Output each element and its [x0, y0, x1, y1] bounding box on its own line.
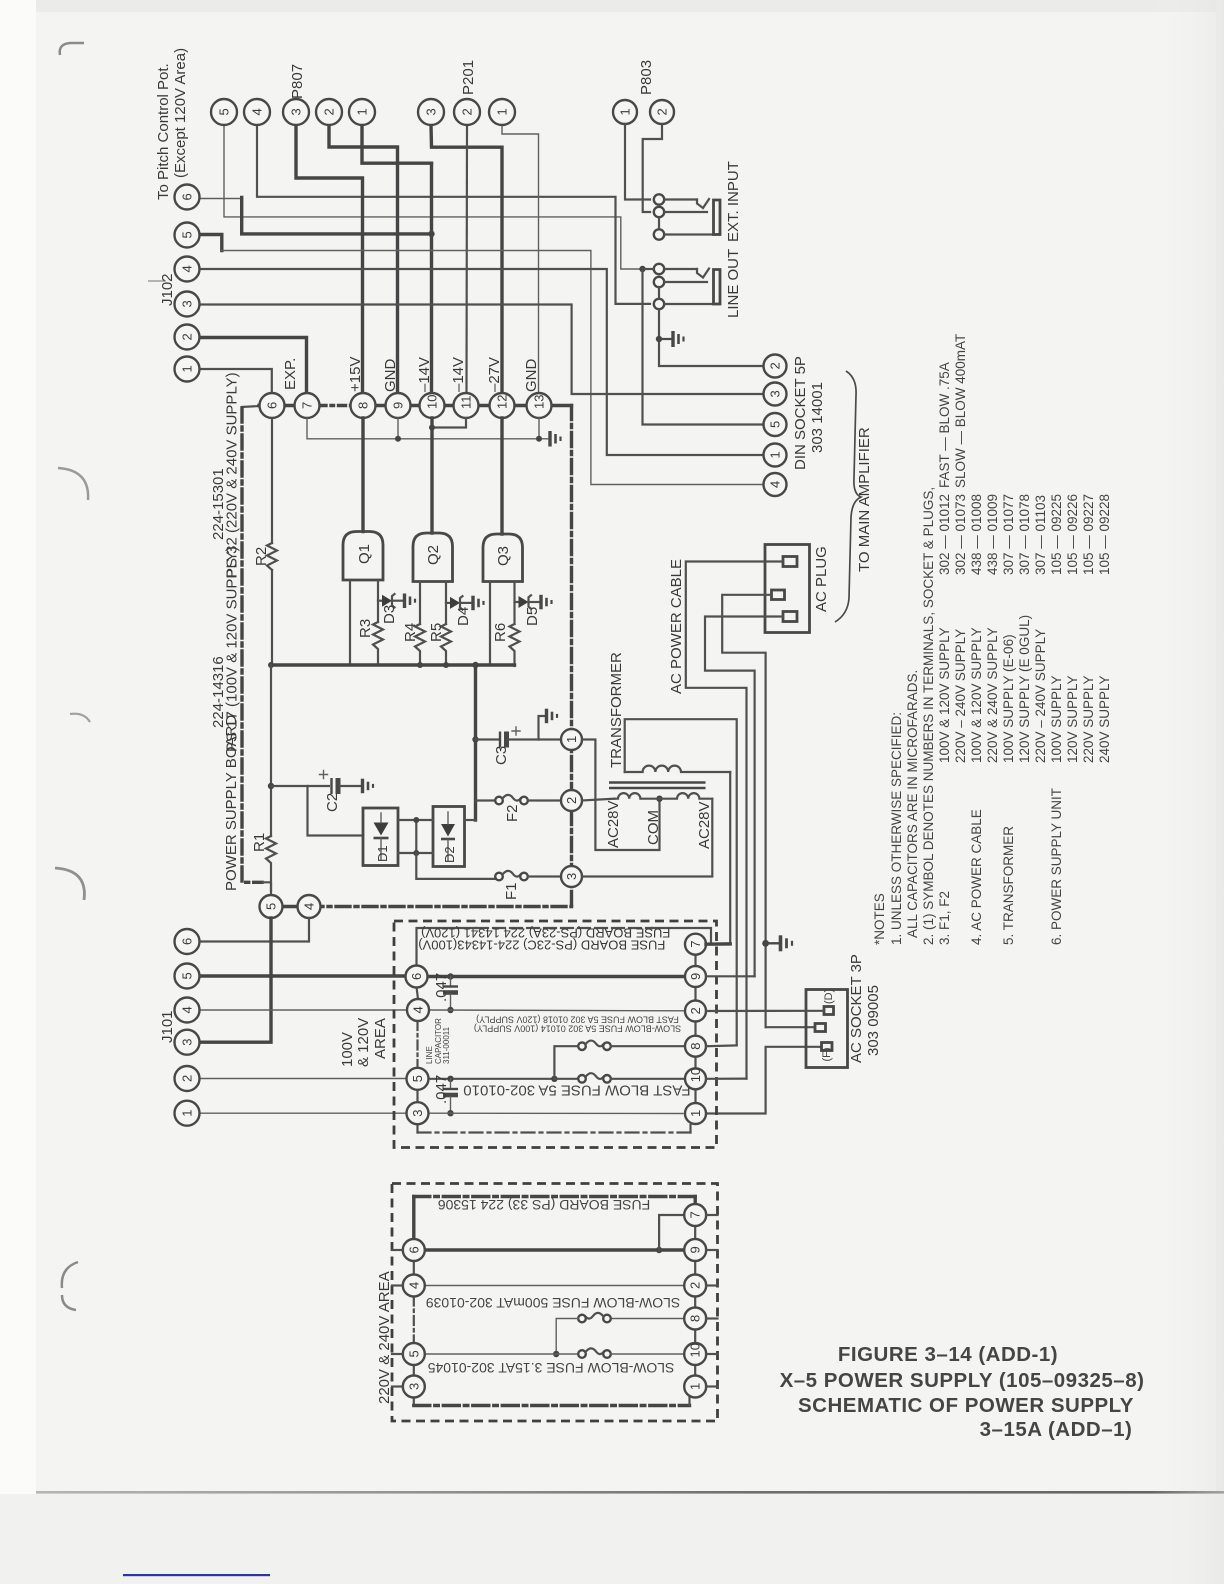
- AC plug middle prong: [772, 590, 785, 600]
- box pin 3: [407, 1102, 429, 1124]
- resistor R3: [373, 622, 383, 665]
- svg-text:5: 5: [264, 903, 279, 910]
- wire Q2 right lead: [445, 582, 447, 625]
- pin13 gnd stub: [538, 418, 540, 439]
- wire P201-1 to pin 13: [502, 125, 539, 393]
- svg-text:6: 6: [180, 193, 195, 200]
- svg-text:120V SUPPLY: 120V SUPPLY: [1065, 675, 1080, 763]
- svg-text:105 — 09228: 105 — 09228: [1097, 494, 1112, 575]
- svg-text:438 — 01008: 438 — 01008: [969, 494, 984, 575]
- svg-text:3: 3: [410, 1109, 425, 1116]
- wire D2 node to F1: [416, 853, 495, 879]
- connector DIN pin 1: [764, 444, 787, 467]
- connector J101 pin 1: [175, 1101, 200, 1126]
- wire Q1 right lead: [377, 580, 379, 622]
- wire bus to C3 node to D2: [474, 665, 477, 820]
- svg-text:4: 4: [411, 1006, 426, 1013]
- wire Q2 left lead: [419, 582, 421, 625]
- fuse F2: [495, 795, 528, 804]
- board right border: [570, 406, 573, 907]
- wire secondary right to pin3: [582, 799, 712, 877]
- connector J101 pin 3: [175, 1030, 200, 1055]
- box pin 10: [685, 1068, 706, 1089]
- wire 220 pin5 to fuse 3.15AT: [425, 1353, 578, 1355]
- junction dot 220 split: [553, 1351, 559, 1357]
- box 100/120V left pin chain: [417, 987, 419, 999]
- box pin 9: [685, 966, 706, 987]
- ground D4: [473, 596, 484, 611]
- svg-text:220V – 240V SUPPLY: 220V – 240V SUPPLY: [1033, 629, 1048, 763]
- bottom rail 220 box: [414, 1404, 690, 1407]
- connector J101 pin 2: [175, 1066, 200, 1091]
- svg-text:3: 3: [564, 873, 579, 880]
- 220 box pin stubs right: [706, 1214, 718, 1216]
- board edge row line: [259, 404, 319, 407]
- wire plug bottom prong to fuse pin9: [705, 617, 783, 977]
- box pin 5: [407, 1068, 429, 1090]
- svg-text:R1: R1: [251, 833, 268, 852]
- jack LINE OUT sleeve contact: [654, 288, 720, 309]
- wire C3 to pin 1: [509, 738, 562, 740]
- svg-text:1: 1: [564, 736, 579, 743]
- junction dot pin7 jog: [656, 1247, 662, 1253]
- svg-text:(D): (D): [823, 989, 835, 1004]
- power supply board left border: [242, 408, 262, 882]
- svg-text:.047: .047: [433, 973, 450, 1002]
- wire P807-5 to LINE OUT tip: [224, 125, 641, 269]
- svg-text:6. POWER SUPPLY UNIT: 6. POWER SUPPLY UNIT: [1049, 788, 1064, 945]
- junction dot 10-11 link: [429, 425, 435, 431]
- wire F2 tap to fuse: [476, 799, 496, 801]
- pin9 gnd stub: [397, 418, 399, 439]
- svg-text:3: 3: [768, 390, 783, 397]
- svg-text:Q2: Q2: [425, 545, 442, 565]
- wire primary right to fuse pin7: [729, 772, 731, 944]
- box pin 4: [407, 999, 429, 1021]
- wire P803-1 to EXT INPUT tip: [625, 124, 650, 200]
- svg-text:F2: F2: [504, 804, 521, 822]
- wire box pin6 up over to pin 7: [417, 928, 477, 965]
- svg-text:(F): (F): [821, 1047, 833, 1061]
- svg-text:5: 5: [410, 1075, 425, 1082]
- wire C2 node to cap: [271, 785, 329, 787]
- wire J102-6 to pin-10 column: [200, 198, 242, 200]
- svg-text:6: 6: [409, 973, 424, 980]
- resistor R5: [441, 624, 451, 666]
- jack LINE OUT body: [714, 270, 721, 305]
- transformer secondary winding right: [660, 793, 713, 799]
- junction dot cap lower bottom: [447, 1110, 453, 1116]
- svg-text:7: 7: [688, 1211, 703, 1218]
- svg-text:SLOW — BLOW 400mAT: SLOW — BLOW 400mAT: [953, 334, 968, 488]
- svg-text:+15V: +15V: [347, 357, 364, 392]
- fuse upper (to pin 8): [578, 1041, 611, 1050]
- svg-text:100V SUPPLY (E-06): 100V SUPPLY (E-06): [1001, 634, 1016, 763]
- power supply board border top tick: [242, 406, 260, 407]
- AC plug bottom prong: [783, 612, 797, 622]
- svg-text:5. TRANSFORMER: 5. TRANSFORMER: [1001, 826, 1016, 945]
- wire P201-2 to pin 11: [465, 125, 468, 393]
- AC socket middle prong: [815, 1024, 826, 1032]
- box pin 2: [685, 1001, 706, 1022]
- AC socket top prong D: [824, 1007, 834, 1015]
- svg-text:9: 9: [688, 973, 703, 980]
- jack EXT INPUT body: [714, 200, 721, 235]
- connector DIN pin 2: [764, 355, 787, 378]
- svg-text:2: 2: [688, 1282, 703, 1289]
- svg-text:AC PLUG: AC PLUG: [813, 546, 830, 612]
- wire J101-2 to box pin 5: [199, 1078, 407, 1080]
- transformer core: [609, 781, 706, 784]
- svg-text:10: 10: [425, 395, 440, 409]
- svg-text:2: 2: [180, 333, 195, 340]
- wire fuse to 220 pin10: [611, 1353, 684, 1355]
- box pin 7: [685, 934, 706, 955]
- connector J102 pin 3: [175, 292, 200, 317]
- connector J102 pin 6: [175, 185, 200, 210]
- wire P201-3 to pin 12: [431, 125, 502, 393]
- junction dot pin13 gnd: [536, 436, 542, 442]
- svg-text:P201: P201: [460, 60, 477, 95]
- gnd bus below row: pin7 stub: [307, 418, 549, 439]
- wire fuse to split dot: [556, 1319, 578, 1355]
- connector P201 pin 2: [454, 99, 480, 125]
- svg-text:302 — 01073: 302 — 01073: [953, 494, 968, 575]
- wire D2 to C3 vertical: [465, 819, 476, 821]
- wire 220 pin4 to pin2: [425, 1285, 684, 1287]
- resistor R1: [266, 836, 276, 891]
- wire P807-3 to pin 8: [296, 125, 363, 393]
- svg-text:J101: J101: [159, 1010, 176, 1043]
- capacitor .047 upper: [443, 977, 458, 1011]
- svg-text:3: 3: [180, 1038, 195, 1045]
- wire split up to upper fuse: [554, 1046, 578, 1079]
- svg-text:9: 9: [391, 402, 406, 409]
- svg-text:6: 6: [180, 938, 195, 945]
- box pin 6: [406, 966, 428, 988]
- wire plug middle prong to earth: [722, 595, 771, 1027]
- 220 box pin 8: [684, 1308, 706, 1330]
- svg-text:220V – 240V SUPPLY: 220V – 240V SUPPLY: [953, 629, 968, 763]
- svg-text:6: 6: [406, 1246, 421, 1253]
- svg-text:AC SOCKET 3P: AC SOCKET 3P: [848, 954, 865, 1063]
- svg-text:P803: P803: [638, 60, 655, 95]
- svg-text:*NOTES: *NOTES: [872, 893, 887, 945]
- wire split to lower fuse: [554, 1078, 578, 1080]
- punch mark left 2: [70, 714, 90, 722]
- svg-text:C2: C2: [324, 793, 341, 812]
- board row pin 8: [351, 393, 376, 418]
- svg-text:1: 1: [688, 1110, 703, 1117]
- wire C2 node branch to D1: [308, 786, 364, 836]
- connector P807 pin 1: [349, 99, 375, 125]
- svg-text:120V SUPPLY (E 0GUL): 120V SUPPLY (E 0GUL): [1017, 615, 1032, 763]
- svg-text:FIGURE 3–14 (ADD-1): FIGURE 3–14 (ADD-1): [838, 1343, 1058, 1366]
- wire C3 ground branch: [539, 716, 546, 740]
- svg-text:311-00011: 311-00011: [442, 1026, 451, 1064]
- 220 box right pin chain: [694, 1226, 696, 1239]
- wire 220 pin6 to pin9: [425, 1248, 684, 1251]
- wire plug top prong to fuse pin10: [686, 562, 783, 1079]
- board row pin 9: [386, 393, 411, 418]
- svg-text:2: 2: [768, 362, 783, 369]
- wire F2 to pin 2: [528, 799, 561, 801]
- blue pen line bottom: [123, 1574, 270, 1576]
- transistor Q2: [413, 533, 453, 582]
- wire pin10 out to AC: [706, 1077, 747, 1079]
- resistor R4: [415, 624, 425, 666]
- svg-text:3: 3: [424, 108, 439, 115]
- svg-text:GND: GND: [382, 359, 399, 393]
- svg-text:307 — 01077: 307 — 01077: [1001, 494, 1016, 575]
- wire Q3 right lead: [513, 582, 515, 625]
- svg-text:EXP.: EXP.: [282, 358, 299, 390]
- wire C2 to ground: [340, 785, 361, 787]
- svg-text:2. (1) SYMBOL DENOTES NUMBERS: 2. (1) SYMBOL DENOTES NUMBERS IN TERMINA…: [921, 487, 936, 945]
- svg-text:307 — 01078: 307 — 01078: [1017, 494, 1032, 575]
- transformer primary winding: [625, 766, 731, 772]
- wire left column bus to C2 node: [270, 665, 272, 836]
- box pin 8: [685, 1036, 706, 1057]
- 220 box pin 2: [684, 1275, 706, 1297]
- connector P807 pin 5: [211, 99, 237, 125]
- connector P201 pin 3: [418, 99, 444, 125]
- junction dot cap upper bottom: [447, 1007, 453, 1013]
- board row pin 11: [454, 393, 479, 418]
- wire pin1 to COM center tap: [582, 740, 660, 851]
- connector P807 pin 3: [283, 99, 309, 125]
- wire J101-6 to board pin 4: [199, 918, 309, 942]
- svg-text:GND: GND: [523, 359, 540, 393]
- svg-text:AC28V: AC28V: [696, 801, 713, 849]
- svg-text:302 — 01012: 302 — 01012: [937, 494, 952, 575]
- svg-text:5: 5: [768, 421, 783, 428]
- svg-text:DIN SOCKET 5P: DIN SOCKET 5P: [792, 356, 809, 470]
- ground D5: [541, 595, 552, 610]
- 220 box pin 4: [403, 1275, 425, 1297]
- connector J101 pin 5: [175, 964, 200, 989]
- svg-text:3: 3: [406, 1383, 421, 1390]
- svg-text:FUSE BOARD (PS-23C) 224-14343(: FUSE BOARD (PS-23C) 224-14343(100V): [418, 938, 665, 953]
- ground C2: [363, 779, 374, 794]
- svg-text:13: 13: [532, 395, 547, 409]
- svg-text:2: 2: [180, 1075, 195, 1082]
- ground earth: [766, 935, 792, 951]
- svg-text:8: 8: [688, 1042, 703, 1049]
- capacitor C3: [500, 727, 520, 748]
- junction dot pin9 gnd: [395, 436, 401, 442]
- resistor R2: [267, 543, 277, 570]
- jack LINE OUT tip contact: [645, 264, 709, 278]
- svg-text:220V & 240V SUPPLY: 220V & 240V SUPPLY: [985, 627, 1000, 763]
- connector P803 pin 1: [613, 100, 637, 124]
- wire P803-2 to EXT INPUT ring: [643, 124, 662, 212]
- svg-text:6: 6: [265, 402, 280, 409]
- fuse board 220/240V dashed box: [392, 1184, 718, 1422]
- svg-text:2: 2: [655, 108, 670, 115]
- punch mark left 1: [58, 468, 88, 500]
- svg-text:9: 9: [688, 1246, 703, 1253]
- wire D1-D2 links: [398, 819, 433, 821]
- svg-text:4: 4: [250, 108, 265, 115]
- wire pin-10 column: [430, 163, 433, 393]
- connector J102 pin 4: [175, 257, 200, 282]
- svg-text:ALL CAPACITORS ARE IN MICROFAR: ALL CAPACITORS ARE IN MICROFARADS.: [905, 670, 920, 938]
- svg-text:1: 1: [618, 108, 633, 115]
- svg-text:8: 8: [356, 402, 371, 409]
- svg-text:To Pitch Control Pot.: To Pitch Control Pot.: [155, 63, 172, 200]
- transistor Q1: [343, 532, 383, 581]
- svg-text:D3: D3: [381, 605, 398, 624]
- svg-text:R6: R6: [492, 623, 509, 642]
- wire pin12 to Q3: [500, 418, 503, 534]
- 220 box pin stubs left: [392, 1249, 403, 1251]
- svg-text:100V & 120V SUPPLY: 100V & 120V SUPPLY: [969, 627, 984, 763]
- svg-text:X–5 POWER SUPPLY (105–09325–8): X–5 POWER SUPPLY (105–09325–8): [780, 1369, 1145, 1392]
- svg-text:240V SUPPLY: 240V SUPPLY: [1097, 675, 1112, 763]
- punch mark left 3: [55, 868, 84, 900]
- board pin 4 bottom: [298, 895, 321, 918]
- svg-text:FAST BLOW FUSE 5A 302 01018 (1: FAST BLOW FUSE 5A 302 01018 (120V SUPPLY…: [476, 1015, 679, 1025]
- svg-text:1: 1: [768, 451, 783, 458]
- fuse lower (to pin 10): [578, 1073, 611, 1082]
- zener D4: [446, 596, 471, 609]
- svg-text:LINE OUT: LINE OUT: [725, 249, 742, 318]
- svg-text:100V & 120V SUPPLY: 100V & 120V SUPPLY: [937, 627, 952, 763]
- wire pin11 to pin10 link: [432, 418, 466, 428]
- board pin 1: [561, 729, 582, 750]
- svg-text:FAST BLOW FUSE 5A 302-01010: FAST BLOW FUSE 5A 302-01010: [463, 1082, 690, 1099]
- board pin 3: [561, 866, 582, 887]
- connector DIN pin 4: [764, 473, 787, 496]
- junction dot cap upper top: [447, 973, 453, 979]
- ground jack sleeve: [659, 331, 684, 347]
- svg-text:100V: 100V: [339, 1032, 356, 1067]
- wire P807-4 to LINE OUT sleeve: [257, 125, 650, 304]
- svg-text:4: 4: [180, 1006, 195, 1013]
- power supply board border corner to pin 5: [262, 882, 271, 895]
- wire box pin4 to pin2: [429, 1009, 685, 1012]
- svg-text:3. F1, F2: 3. F1, F2: [937, 891, 952, 945]
- svg-text:AC28V: AC28V: [605, 800, 622, 848]
- svg-text:12: 12: [495, 395, 510, 409]
- svg-text:4. AC POWER CABLE: 4. AC POWER CABLE: [969, 809, 984, 945]
- zener D5: [515, 595, 540, 608]
- svg-text:R2: R2: [253, 547, 270, 566]
- svg-text:–14V: –14V: [450, 357, 467, 392]
- junction dot LINE OUT tip node: [639, 266, 645, 272]
- svg-text:105 — 09225: 105 — 09225: [1049, 494, 1064, 575]
- wire pin3 bottom rail to pin1: [416, 1125, 418, 1133]
- 220 box pin 6: [403, 1239, 425, 1261]
- AC socket bottom prong F: [822, 1043, 833, 1051]
- ground D3: [405, 594, 416, 609]
- svg-text:303 09005: 303 09005: [865, 985, 882, 1056]
- svg-text:–14V: –14V: [416, 357, 433, 392]
- board bottom border: [282, 905, 572, 908]
- svg-text:D5: D5: [524, 607, 541, 626]
- svg-text:AREA: AREA: [372, 1018, 389, 1059]
- svg-text:8: 8: [688, 1315, 703, 1322]
- board row pin 10: [420, 393, 445, 418]
- svg-text:R4: R4: [402, 623, 419, 642]
- wire J102-3 to DIN pin 3: [200, 305, 764, 395]
- wire pin2 out to socket D: [706, 1010, 824, 1012]
- wire pin8 to Q1: [361, 418, 364, 532]
- wire pin2 to secondary left: [582, 799, 615, 801]
- wire box pin5 to fuse split: [429, 1078, 555, 1080]
- board row pin 6: [260, 393, 285, 418]
- svg-text:2: 2: [564, 797, 579, 804]
- svg-text:3–15A (ADD–1): 3–15A (ADD–1): [980, 1418, 1133, 1441]
- svg-text:SLOW-BLOW FUSE 500mAT 302-0103: SLOW-BLOW FUSE 500mAT 302-01039: [426, 1295, 681, 1311]
- wire pin7 out to transformer primary: [706, 942, 730, 946]
- svg-text:Q1: Q1: [356, 544, 373, 564]
- svg-text:4: 4: [768, 481, 783, 488]
- diode D1: [363, 808, 398, 866]
- 220 box left pin chain: [413, 1261, 415, 1274]
- jack EXT INPUT sleeve contact: [654, 218, 720, 240]
- junction dot sleeve ground: [656, 336, 662, 342]
- resistor R6: [510, 624, 520, 666]
- board row pin 12: [490, 393, 515, 418]
- connector J102 pin 1: [175, 357, 200, 382]
- wire box pin6 to pin9: [427, 975, 685, 978]
- wire J102-2 to pin 7: [200, 338, 307, 394]
- fuse 500mAT: [578, 1313, 611, 1322]
- junction dot J102-6 tap: [428, 231, 434, 237]
- connector DIN pin 3: [764, 383, 787, 406]
- wire P807-2 to pin 9: [329, 125, 398, 393]
- svg-text:R3: R3: [357, 619, 374, 638]
- ground board bus: [550, 431, 561, 447]
- junction dot earth: [762, 940, 769, 947]
- svg-text:D4: D4: [455, 607, 472, 626]
- svg-text:& 120V: & 120V: [355, 1018, 372, 1067]
- svg-text:7: 7: [300, 402, 315, 409]
- wire J102-1 to pin 6: [200, 369, 272, 393]
- svg-text:10: 10: [688, 1068, 703, 1082]
- wire upper fuse to pin 8: [611, 1045, 685, 1047]
- connector DIN pin 5: [764, 413, 787, 436]
- capacitor .047 lower: [443, 1079, 458, 1113]
- svg-text:R5: R5: [428, 623, 445, 642]
- wire C3 node to cap: [476, 738, 499, 740]
- diode D2: [433, 807, 465, 867]
- svg-text:1: 1: [180, 1109, 195, 1116]
- svg-text:.047: .047: [433, 1075, 450, 1104]
- junction dot cap lower top: [447, 1076, 453, 1082]
- fuse F1: [495, 871, 528, 880]
- wire J101-5 to box pin 6: [199, 974, 406, 977]
- svg-text:100V SUPPLY: 100V SUPPLY: [1049, 675, 1064, 763]
- svg-text:C3: C3: [493, 746, 510, 765]
- wire LINE OUT tip to DIN 5: [643, 269, 765, 425]
- wire LINE OUT sleeve to ground and DIN 2: [659, 310, 764, 366]
- connector J102 pin 5: [175, 223, 200, 248]
- svg-text:COM: COM: [645, 810, 662, 845]
- wire J102-4 to DIN pin 1: [200, 269, 764, 455]
- board pin 2: [561, 790, 582, 811]
- wire pin6 column to bus: [271, 418, 273, 543]
- svg-text:307 — 01103: 307 — 01103: [1033, 495, 1048, 575]
- svg-text:AC POWER CABLE: AC POWER CABLE: [668, 559, 685, 694]
- connector J102 pin 2: [175, 325, 200, 350]
- faint mark: [148, 280, 166, 282]
- wire pin7 jog: [659, 1215, 684, 1250]
- wire pin8 out to AC: [706, 1044, 737, 1047]
- wire primary left to AC: [625, 719, 737, 1045]
